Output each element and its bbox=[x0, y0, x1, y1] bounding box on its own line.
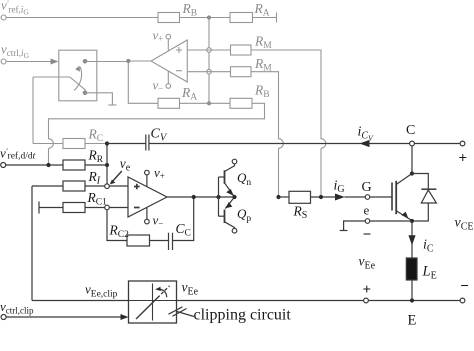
node open circle - input bbox=[207, 69, 212, 74]
op-amp U1 v+ pin bbox=[167, 39, 169, 52]
node ve open circle bbox=[105, 184, 110, 189]
wire RC1 to - node bbox=[85, 207, 105, 209]
arrowhead iC down bbox=[408, 235, 415, 245]
svg-text:G: G bbox=[362, 180, 372, 195]
op-amp U1 plus sign bbox=[176, 47, 182, 53]
resistor RA (top row) bbox=[230, 13, 253, 23]
IGBT T1 collector lead bbox=[396, 174, 412, 185]
node junction RS left bbox=[276, 195, 280, 199]
wire RC right bbox=[85, 143, 107, 145]
resistor RB (feedback row) bbox=[230, 98, 252, 108]
node junction RA-RB row2 bbox=[207, 101, 211, 105]
wire RA to termination bbox=[253, 17, 277, 19]
wire node column x107 bbox=[106, 144, 108, 185]
wire RA to node bbox=[180, 102, 232, 104]
svg-text:vEe,clip: vEe,clip bbox=[85, 282, 118, 300]
node junction emitter output bbox=[232, 195, 236, 199]
wire v'ref,d/dt to RR bbox=[6, 164, 63, 166]
svg-text:RR: RR bbox=[88, 148, 104, 166]
wire e row bbox=[370, 220, 412, 222]
transistor Qp collector bbox=[225, 222, 235, 229]
switch contact top bbox=[83, 59, 88, 64]
wire - input stub bbox=[109, 207, 128, 209]
svg-text:RM: RM bbox=[254, 34, 272, 52]
switch motion arc bbox=[74, 67, 82, 91]
switch box S1 bbox=[59, 50, 97, 101]
svg-text:v−: v− bbox=[153, 78, 164, 94]
wire e to ground bbox=[344, 221, 366, 231]
IGBT T1 emitter lead bbox=[396, 211, 412, 221]
svg-text:vctrl,iG: vctrl,iG bbox=[1, 42, 30, 61]
wire left column x32 down to clip row bbox=[31, 186, 33, 301]
op-amp U1 minus sign bbox=[176, 70, 182, 72]
wire RC2 to CC bbox=[150, 240, 169, 242]
transistor Qn emitter bbox=[225, 183, 235, 197]
wire U2 output bbox=[167, 196, 235, 198]
arrowhead ve pointer bbox=[110, 180, 115, 185]
wire - node down to feedback row bbox=[107, 210, 127, 241]
wire RC row left bbox=[33, 143, 63, 145]
clip transfer diagonal solid bbox=[136, 298, 158, 319]
node open circle + input bbox=[207, 48, 212, 53]
ground bar (e) bbox=[340, 230, 348, 232]
wire switch bottom contact to ground bbox=[85, 93, 112, 105]
arrowhead switch arc bbox=[75, 66, 80, 72]
svg-text:v+: v+ bbox=[154, 165, 165, 181]
resistor RI bbox=[63, 181, 85, 191]
wire RS right bbox=[311, 196, 337, 198]
svg-text:RM: RM bbox=[254, 56, 272, 74]
node junction output column bbox=[126, 59, 130, 63]
wire opamp U1 output bbox=[128, 60, 151, 62]
svg-text:vctrl,clip: vctrl,clip bbox=[0, 299, 34, 316]
clip transfer diagonal dashed bbox=[158, 286, 170, 298]
clip box vertical axis bbox=[152, 284, 154, 321]
wire output column down to RA row2 bbox=[128, 61, 158, 103]
wire to RS bbox=[279, 196, 290, 198]
svg-text:E: E bbox=[408, 313, 417, 329]
svg-text:vEe: vEe bbox=[359, 254, 376, 272]
node - input open circle bbox=[105, 205, 110, 210]
ground bar (switch) bbox=[108, 104, 116, 106]
svg-text:iC: iC bbox=[423, 238, 434, 255]
wire RB right U-turn down to vref,d/dt node bbox=[49, 103, 265, 165]
wire to diode top bbox=[412, 174, 428, 190]
node junction feedback bbox=[192, 195, 196, 199]
resistor RC1 bbox=[63, 203, 85, 213]
transistor Qp emitter bbox=[225, 197, 234, 209]
svg-text:CV: CV bbox=[151, 127, 168, 144]
svg-text:CC: CC bbox=[176, 221, 191, 239]
wire base column bbox=[218, 177, 220, 216]
node junction RR right bbox=[105, 163, 109, 167]
svg-text:Qp: Qp bbox=[237, 206, 251, 224]
resistor RC2 bbox=[127, 235, 150, 246]
wire RM right to column x278.5 bbox=[251, 72, 283, 197]
svg-text:v′ref,iG: v′ref,iG bbox=[1, 0, 29, 17]
svg-text:RB: RB bbox=[254, 83, 270, 101]
switch lever bbox=[70, 77, 86, 90]
switch contact bottom bbox=[83, 91, 88, 96]
svg-text:RA: RA bbox=[181, 85, 197, 103]
resistor RA (feedback row) bbox=[158, 98, 180, 108]
node v'ref,iG input terminal bbox=[1, 15, 6, 20]
wire LE to E node bbox=[411, 280, 413, 301]
svg-text:RC1: RC1 bbox=[87, 190, 108, 208]
arrowhead clip arc bbox=[155, 287, 161, 291]
wire switch common lever input bbox=[33, 76, 70, 78]
svg-text:RI: RI bbox=[88, 169, 101, 187]
op-amp U1 v- pin bbox=[167, 71, 169, 84]
svg-text:RC: RC bbox=[88, 126, 104, 144]
wire CV to collector C bbox=[149, 143, 410, 145]
wire gray vertical from lever to RC row bbox=[32, 77, 34, 144]
clipping box bbox=[129, 281, 177, 323]
wire C to + terminal bbox=[414, 143, 460, 145]
node vctrl,clip input terminal bbox=[1, 315, 6, 320]
node E junction bbox=[410, 298, 414, 302]
op-amp U2 v+ pin bbox=[146, 175, 148, 186]
resistor RB (top row) bbox=[158, 13, 180, 23]
svg-text:v′ref,d/dt: v′ref,d/dt bbox=[0, 146, 36, 162]
clipping circuit pointer bbox=[169, 307, 195, 317]
svg-text:Qn: Qn bbox=[237, 170, 251, 188]
termination tick bbox=[276, 13, 278, 23]
wire switch top contact to opamp output bbox=[85, 61, 128, 63]
arrowhead Qn emitter bbox=[226, 189, 233, 196]
wire collector vertical bbox=[411, 146, 413, 174]
node v'ref,d/dt input terminal bbox=[1, 163, 6, 168]
arrowhead vctrl,iG into switch bbox=[51, 59, 59, 65]
wire v'ref,iG to RB bbox=[6, 17, 158, 19]
svg-text:v−: v− bbox=[153, 213, 164, 229]
diode D1 triangle bbox=[421, 190, 436, 203]
node + terminal bottom bbox=[364, 298, 369, 303]
arrowhead vctrl,clip bbox=[121, 314, 129, 320]
arrowhead iG bbox=[335, 194, 345, 201]
wire + input row to RM bbox=[187, 49, 230, 51]
wire CV row to cap bbox=[107, 143, 146, 145]
svg-text:+: + bbox=[363, 282, 372, 298]
resistor RR bbox=[63, 160, 85, 170]
termination tick RC1 bbox=[38, 202, 40, 214]
svg-text:e: e bbox=[364, 203, 370, 218]
wire + input stub bbox=[109, 185, 128, 187]
svg-text:ve: ve bbox=[120, 156, 131, 174]
wire vEe,clip row bbox=[32, 300, 129, 302]
transistor Qp body bar bbox=[224, 210, 226, 224]
ve pointer arrow bbox=[111, 171, 122, 183]
clip adjust arc bbox=[157, 289, 167, 297]
clip box horizontal axis bbox=[129, 300, 177, 302]
svg-text:RA: RA bbox=[254, 1, 270, 19]
capacitor CV bbox=[146, 135, 149, 151]
wire - input row to RM bbox=[187, 71, 230, 73]
wire G to gate bbox=[370, 196, 392, 198]
svg-text:−: − bbox=[460, 279, 469, 295]
svg-text:v+: v+ bbox=[153, 28, 164, 44]
op-amp U2 plus sign bbox=[134, 184, 140, 190]
svg-text:C: C bbox=[406, 123, 415, 138]
wire vctrl,iG to switch bbox=[6, 61, 51, 63]
op-amp U2 minus sign bbox=[134, 207, 140, 209]
svg-text:vEe: vEe bbox=[182, 280, 199, 298]
capacitor CC bbox=[169, 233, 173, 250]
node e terminal bbox=[365, 219, 370, 224]
wire RM right to column x321 bbox=[251, 50, 326, 197]
node junction emitter bbox=[410, 219, 414, 223]
op-amp U2 v- pin bbox=[146, 208, 148, 220]
svg-text:vCE: vCE bbox=[455, 216, 474, 233]
node v+ pin Qn bbox=[232, 159, 237, 164]
wire CC up to output bbox=[173, 197, 194, 241]
node C terminal bbox=[410, 141, 415, 146]
wire diode bottom to emitter node bbox=[412, 203, 428, 221]
resistor RM (row - ) bbox=[231, 67, 252, 77]
node junction RS right bbox=[319, 195, 323, 199]
node junction base column bbox=[216, 195, 220, 199]
op-amp U1 (points left) bbox=[151, 40, 187, 82]
node vctrl,iG input terminal bbox=[1, 59, 6, 64]
resistor RM (row + ) bbox=[231, 45, 252, 55]
node + terminal top right bbox=[460, 141, 465, 146]
node junction CV row bbox=[105, 141, 109, 145]
resistor RC bbox=[63, 139, 85, 149]
wire tick to RC1 bbox=[39, 207, 63, 209]
svg-text:clipping circuit: clipping circuit bbox=[194, 307, 292, 324]
op-amp U2 bbox=[128, 177, 167, 217]
svg-text:+: + bbox=[459, 151, 468, 167]
svg-text:−: − bbox=[363, 227, 372, 243]
wire RB to RA top row bbox=[180, 17, 231, 19]
svg-text:RB: RB bbox=[182, 1, 198, 19]
node junction top row bbox=[207, 15, 211, 19]
wire emitter down to LE bbox=[411, 221, 413, 258]
svg-text:LE: LE bbox=[422, 264, 437, 282]
wire iG arrow to G bbox=[345, 196, 366, 198]
node G terminal bbox=[365, 195, 370, 200]
svg-text:iCV: iCV bbox=[358, 125, 375, 143]
IGBT T1 gate bar bbox=[391, 183, 393, 211]
wire Qn base stub bbox=[219, 176, 225, 178]
wire RR to node column bbox=[85, 164, 107, 166]
svg-text:RS: RS bbox=[293, 204, 308, 222]
node junction x48.5 bbox=[46, 163, 50, 167]
arrowhead Qp emitter bbox=[225, 202, 232, 208]
transistor Qn body bar bbox=[224, 170, 226, 184]
svg-text:iG: iG bbox=[334, 178, 345, 195]
wire bottom bus bbox=[177, 300, 461, 302]
node junction collector bbox=[410, 171, 414, 175]
wire RI to ve node bbox=[85, 185, 105, 187]
transistor Qn collector bbox=[225, 164, 235, 172]
arrowhead IGBT emitter bbox=[401, 212, 408, 219]
node v- pin Qp bbox=[232, 228, 237, 233]
resistor RS bbox=[289, 191, 311, 203]
wire Qp base stub bbox=[219, 215, 225, 217]
diode D1 cathode bar bbox=[421, 188, 436, 190]
wire vertical inverting column x209 bbox=[208, 18, 210, 104]
wire vctrl,clip to clip box bbox=[6, 316, 121, 318]
svg-text:RC2: RC2 bbox=[109, 222, 130, 240]
inductor LE bbox=[406, 258, 417, 280]
IGBT T1 body bar bbox=[395, 181, 397, 214]
wire R_I row from left column bbox=[32, 185, 63, 187]
arrowhead iCv bbox=[360, 140, 370, 147]
node - terminal bottom right bbox=[460, 298, 465, 303]
